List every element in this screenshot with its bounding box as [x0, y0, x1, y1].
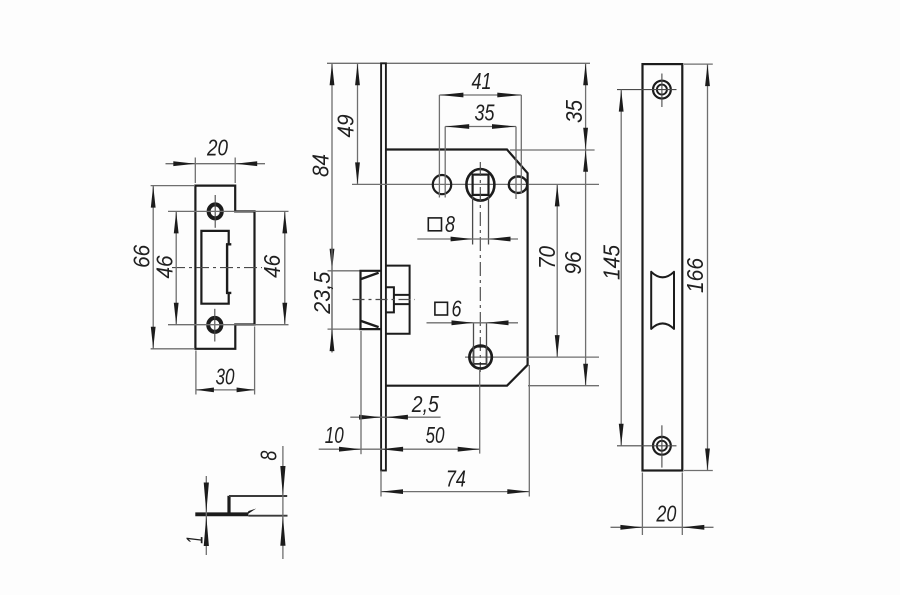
cylinder hole left — [433, 175, 451, 194]
dim 46 right line — [284, 211, 286, 324]
latch bolt outline — [361, 271, 382, 329]
dim 46 left arrows — [174, 211, 179, 233]
dim 1 profile line — [205, 476, 207, 555]
svg-text:1: 1 — [181, 536, 207, 544]
profile bar bottom extension — [248, 515, 287, 517]
dim 66 arrows — [151, 186, 156, 208]
body bottom extension right — [528, 385, 599, 387]
dim 96 line — [585, 150, 587, 386]
latch tail outline — [386, 266, 410, 334]
svg-text:166: 166 — [682, 258, 708, 293]
dim 49 line — [357, 63, 359, 184]
dim 49 arrows — [355, 63, 360, 85]
svg-text:20: 20 — [656, 500, 677, 526]
top extension line — [327, 62, 590, 64]
face plate outline — [643, 64, 683, 470]
dim 41 extension lines — [438, 95, 440, 198]
dim 46 left extension line bottom — [168, 324, 289, 326]
dim 66 extension lines — [151, 185, 195, 187]
dim 20 right extension lines — [641, 473, 643, 536]
dim 74 extension right — [528, 365, 530, 497]
svg-text:84: 84 — [307, 154, 333, 177]
strip lower extension — [380, 471, 382, 497]
svg-text:35: 35 — [561, 100, 587, 123]
latch follower small rect — [386, 287, 394, 312]
dim 166 line — [707, 64, 709, 470]
strike plate screw hole top — [209, 204, 222, 218]
latch bolt bottom bevel — [361, 321, 379, 327]
svg-text:10: 10 — [325, 422, 344, 448]
svg-text:2,5: 2,5 — [411, 391, 439, 417]
dim 20 extension lines — [194, 158, 196, 184]
svg-text:70: 70 — [534, 246, 560, 269]
dim 74 line — [381, 491, 529, 493]
dim 10 50 arrows — [339, 447, 361, 452]
profile bend hook — [246, 509, 257, 516]
face plate bottom hole — [653, 437, 671, 455]
profile bent lip vertical — [227, 496, 230, 514]
dim sq8 line — [417, 238, 518, 240]
svg-text:50: 50 — [426, 422, 445, 448]
dim 96 arrows — [583, 150, 588, 172]
dim 84 line — [331, 63, 333, 352]
dim 46 right arrows — [282, 211, 287, 233]
svg-text:74: 74 — [446, 465, 466, 491]
profile lip flange — [229, 495, 287, 497]
svg-text:41: 41 — [472, 68, 492, 94]
lower hole centerline — [465, 356, 599, 358]
dim 70 line — [556, 184, 558, 357]
dim 8 profile arrows — [280, 466, 285, 496]
body top extension right — [510, 149, 595, 151]
svg-text:49: 49 — [332, 114, 358, 137]
cylinder hole right — [509, 177, 527, 193]
dim sq8 symbol — [428, 218, 441, 231]
dim 35 arrows — [445, 124, 469, 129]
strike plate horizontal centerline — [172, 267, 262, 269]
spindle square edges extended — [472, 196, 474, 245]
dim sq8 arrows — [451, 237, 473, 242]
hole row centerline — [352, 183, 599, 185]
latch bolt top bevel — [361, 273, 379, 279]
dim 41 arrows — [439, 93, 463, 98]
dim 41 line — [439, 94, 521, 96]
dim 20 right arrows — [620, 525, 642, 530]
face plate bottom extension — [684, 470, 713, 472]
latch edge extension — [360, 331, 362, 454]
face plate latch opening — [651, 272, 674, 329]
face plate top hole — [653, 81, 671, 99]
dim 166 arrows — [705, 64, 710, 86]
faceplate strip — [381, 63, 386, 470]
dim 30 extension lines — [195, 351, 197, 395]
strike plate latch window — [201, 231, 228, 304]
face plate bottom hole crosshair — [617, 445, 677, 447]
svg-text:20: 20 — [206, 134, 228, 160]
profile plate bar — [195, 512, 248, 516]
svg-text:35: 35 — [475, 100, 495, 126]
spindle hole upper — [466, 169, 494, 201]
dim sq6 line — [427, 322, 519, 324]
latch stem lines — [394, 294, 410, 296]
strike plate screw hole bottom crosshair — [214, 309, 216, 342]
strike plate bent tongue — [226, 244, 231, 294]
dim 30 arrows — [196, 388, 214, 393]
svg-text:6: 6 — [452, 295, 462, 321]
dim 50 extension — [479, 369, 481, 454]
dim 35 line — [445, 126, 516, 128]
dim 23_5 arrows — [330, 329, 335, 351]
dim 74 arrows — [381, 489, 403, 494]
dim 20 line — [166, 163, 266, 165]
svg-text:23,5: 23,5 — [309, 272, 335, 315]
dim 145 arrows — [619, 90, 624, 112]
lock body outline — [386, 150, 528, 386]
svg-text:46: 46 — [259, 255, 285, 278]
svg-text:145: 145 — [598, 245, 624, 280]
svg-text:96: 96 — [560, 251, 586, 274]
strike plate screw hole top crosshair — [214, 195, 216, 228]
dim 35 right arrows — [583, 63, 588, 85]
dim 70 arrows — [555, 184, 560, 206]
dim 1 profile arrows — [204, 483, 209, 513]
latch top extension — [328, 270, 361, 272]
dim 35 right line — [585, 63, 587, 149]
spindle square 8 outline — [473, 175, 489, 195]
strike plate screw hole bottom — [208, 318, 221, 332]
latch bottom extension — [328, 328, 361, 330]
spindle hole lower — [469, 346, 491, 369]
vertical centerline spindles — [479, 162, 481, 372]
svg-text:46: 46 — [151, 255, 177, 278]
dim 35 extension lines — [444, 127, 446, 198]
face plate top hole crosshair — [617, 89, 677, 91]
dim 30 line — [196, 389, 255, 391]
dim 145 line — [620, 90, 622, 446]
dim 46 left extension line top — [168, 210, 289, 212]
dim 2_5 arrows — [359, 415, 381, 420]
dim 84 arrows — [330, 63, 335, 85]
face plate top extension — [684, 63, 713, 65]
spindle square 6 outline — [474, 347, 487, 364]
svg-text:8: 8 — [445, 211, 455, 237]
dim sq6 extension lines — [473, 323, 475, 364]
latch centerline — [353, 299, 416, 301]
dim sq6 arrows — [452, 320, 474, 325]
dim 66 line — [152, 186, 154, 349]
dim 10 50 line — [319, 448, 480, 450]
strike plate outline — [195, 186, 254, 349]
dim 20 right line — [611, 526, 714, 528]
dim 8 profile line — [282, 446, 284, 559]
dim sq6 symbol — [435, 302, 448, 315]
dim 2_5 line — [350, 416, 440, 418]
dim 23_5 line — [331, 248, 333, 353]
dim 20 arrows — [173, 161, 195, 166]
dim 46 left line — [175, 211, 177, 324]
svg-text:8: 8 — [255, 450, 281, 460]
svg-text:30: 30 — [216, 363, 235, 389]
